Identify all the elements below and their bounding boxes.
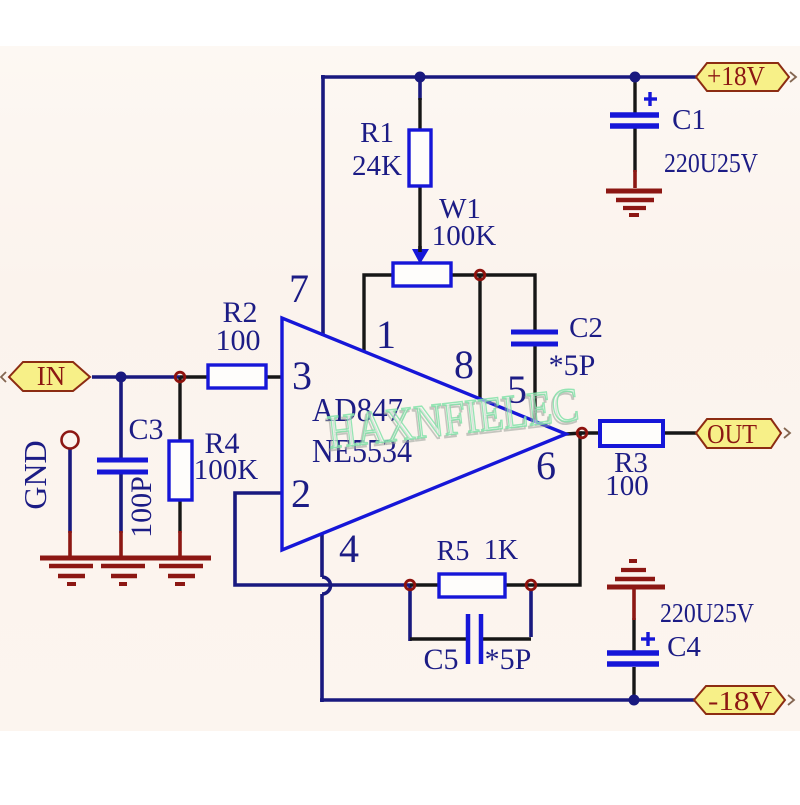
svg-text:100P: 100P [125, 476, 158, 538]
svg-text:*5P: *5P [485, 643, 532, 676]
svg-text:C4: C4 [667, 631, 701, 663]
svg-text:100: 100 [216, 324, 261, 357]
svg-text:-18V: -18V [708, 686, 773, 716]
svg-text:6: 6 [536, 443, 556, 488]
svg-text:100K: 100K [432, 220, 497, 252]
svg-text:C5: C5 [423, 643, 458, 676]
svg-text:2: 2 [291, 471, 311, 516]
svg-text:OUT: OUT [707, 419, 757, 449]
svg-text:8: 8 [454, 342, 474, 387]
svg-text:24K: 24K [352, 150, 402, 182]
svg-text:GND: GND [17, 440, 53, 509]
svg-text:C1: C1 [672, 104, 706, 136]
svg-text:100K: 100K [194, 454, 259, 486]
svg-text:1: 1 [376, 312, 396, 357]
svg-text:C2: C2 [569, 312, 603, 344]
svg-text:220U25V: 220U25V [660, 598, 754, 628]
svg-text:*5P: *5P [549, 349, 596, 382]
svg-text:7: 7 [289, 266, 309, 311]
svg-text:IN: IN [37, 361, 66, 391]
svg-text:R5: R5 [437, 536, 470, 567]
svg-text:3: 3 [292, 353, 312, 398]
svg-text:100: 100 [605, 470, 649, 502]
svg-text:220U25V: 220U25V [664, 148, 758, 178]
svg-text:1K: 1K [484, 535, 518, 566]
svg-text:4: 4 [339, 526, 359, 571]
svg-text:+18V: +18V [707, 61, 765, 91]
svg-text:C3: C3 [128, 413, 163, 446]
svg-text:R1: R1 [360, 117, 394, 149]
